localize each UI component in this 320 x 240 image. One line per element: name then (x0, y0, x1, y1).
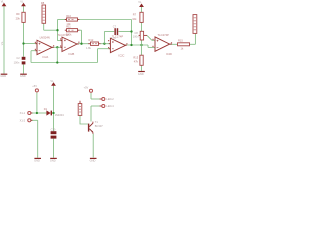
svg-text:GND: GND (50, 159, 56, 162)
wire R13 bottom to ground (141, 65, 143, 71)
svg-text:VL: VL (138, 0, 142, 4)
wire U1D output to R15 (170, 43, 178, 45)
wire R16 bottom to transistor base (80, 116, 88, 125)
svg-text:GND: GND (34, 159, 40, 162)
svg-text:1.8k: 1.8k (86, 46, 92, 50)
svg-text:+5V: +5V (84, 86, 89, 90)
wire VL to R9 top (23, 6, 25, 12)
wire R11 right (79, 29, 82, 31)
wire C7 branch vertical (103, 32, 105, 44)
svg-text:X1-2: X1-2 (20, 119, 26, 123)
wire LED pad bottom left (91, 105, 101, 107)
pin numbers U1C (108, 40, 109, 41)
wire X1-2 pad right (31, 119, 38, 121)
node U1A output junction (56, 46, 58, 48)
svg-text:R7: R7 (133, 12, 137, 16)
wire into U1D upper input (152, 39, 155, 41)
node U1B output junction (80, 43, 82, 45)
wire R10 left (58, 19, 67, 21)
node C8 bottom junction (140, 44, 142, 46)
wire to C7 left plate (104, 31, 114, 33)
svg-text:C10: C10 (51, 128, 56, 132)
wire VL left rail vertical (3, 6, 5, 74)
resistor R15 (178, 43, 190, 46)
wire down to transistor collector (90, 106, 92, 122)
svg-text:GND: GND (90, 159, 96, 162)
node B junction (56, 29, 58, 31)
pin numbers U1D (152, 39, 153, 40)
wire pad +5V down to diode node (36, 93, 38, 113)
transistor T1 (88, 124, 89, 132)
wire transistor emitter to ground (92, 134, 94, 158)
wire into U1D lower input (148, 46, 155, 48)
wire to LED pad top (91, 98, 101, 100)
capacitor C8 (140, 31, 143, 40)
svg-text:IC2C: IC2C (119, 53, 125, 57)
op-amp U1D (155, 37, 170, 51)
node feedback junction (56, 61, 58, 63)
svg-text:1N4004: 1N4004 (55, 113, 65, 117)
svg-text:TLC274P: TLC274P (112, 34, 124, 38)
node A junction (22, 42, 24, 44)
svg-text:R12: R12 (89, 38, 94, 42)
svg-text:R10: R10 (66, 14, 71, 18)
wire R11 down to U1B output node (81, 30, 83, 44)
node VL column junction (52, 112, 54, 114)
svg-text:GND: GND (138, 72, 144, 76)
wire U1A output to U1B lower input (52, 46, 62, 48)
svg-text:100n: 100n (133, 35, 139, 39)
resistor R10 (67, 18, 78, 21)
pin numbers U1A (35, 42, 36, 43)
supply VL arrow above diode node (51, 82, 56, 86)
resistor R9 (22, 12, 25, 22)
wire R12 to U1C input (100, 43, 110, 45)
wire C8 bottom to rail (141, 40, 143, 55)
pad LED minus (100, 105, 102, 107)
wire tall resistor R8 bottom down (43, 23, 45, 30)
svg-text:100n: 100n (14, 60, 20, 64)
wire U1B output to R12 (77, 43, 89, 45)
resistor R11 (67, 29, 78, 32)
wire C10 bottom to ground (53, 139, 55, 158)
ground under T1 (90, 158, 97, 159)
node U1C out junction (130, 44, 132, 46)
tall resistor R14 right edge (193, 15, 197, 34)
svg-text:IC2A: IC2A (43, 55, 49, 59)
wire VL column vertical upper (53, 86, 55, 132)
svg-text:TLC274P: TLC274P (158, 33, 170, 37)
svg-text:LED-2: LED-2 (106, 97, 114, 101)
wire up to tall resistor R14 (194, 33, 196, 44)
wire R10 right long rail (79, 19, 132, 21)
svg-text:BC337: BC337 (95, 124, 103, 128)
wire node B vertical to op-amp U1B input (57, 20, 59, 41)
svg-text:VL: VL (1, 0, 5, 3)
wire X1-1 pad to diode anode (31, 112, 46, 114)
ground under C2 (20, 74, 27, 75)
ground under R13 (138, 71, 145, 72)
op-amp pin stubs (52, 46, 54, 48)
svg-text:TLC274P: TLC274P (57, 33, 69, 37)
wire diode cathode to VL column (52, 112, 54, 114)
supply VL arrow second (21, 3, 26, 6)
svg-text:C7: C7 (113, 24, 117, 28)
wire feedback up to U1A minus input (30, 51, 32, 63)
node C7 branch junction (103, 43, 105, 45)
resistor R12 (91, 42, 99, 45)
wire rail down to U1D lower input (147, 45, 149, 47)
svg-text:R9: R9 (16, 12, 20, 16)
wire U1C plus input down to feedback rail (97, 49, 99, 63)
ground left (1, 74, 8, 75)
wire VL to R7 top (141, 7, 143, 12)
svg-text:C2: C2 (16, 56, 20, 60)
wire R9 bottom to node A (23, 22, 25, 56)
svg-text:GND: GND (20, 74, 26, 78)
capacitor C2 (22, 57, 26, 60)
wire R7 bottom to C8 top (141, 22, 143, 31)
svg-text:R15: R15 (178, 38, 183, 42)
svg-text:+5V: +5V (32, 84, 37, 88)
node D junction (130, 30, 132, 32)
wire U1C plus input (98, 48, 111, 50)
ground under C10 (50, 158, 57, 159)
resistor R16 (78, 104, 82, 116)
pad LED plus (100, 98, 102, 100)
svg-text:R11: R11 (66, 25, 71, 29)
wire C2 bottom to ground (23, 64, 25, 73)
resistor R7 (140, 12, 143, 22)
svg-text:LED-4: LED-4 (106, 104, 114, 108)
supply VL arrow top-left (2, 3, 7, 6)
svg-text:VL: VL (0, 41, 4, 45)
op-amp U1C (110, 38, 125, 52)
op-amp U1B (62, 37, 77, 51)
svg-text:VL: VL (20, 0, 24, 3)
svg-text:IC2B: IC2B (69, 52, 75, 56)
wire into U1A minus input (31, 50, 37, 52)
svg-text:X1-1: X1-1 (20, 111, 26, 115)
resistor R13 (140, 55, 143, 65)
wire into U1B top input (58, 40, 63, 42)
svg-text:GND: GND (0, 74, 6, 78)
ground under X1-2 (34, 158, 41, 159)
capacitor C7 (114, 28, 116, 35)
wire R8 to node B horizontal (44, 29, 58, 31)
wire C7 right plate to node D (118, 31, 131, 33)
svg-text:LM324N: LM324N (40, 35, 50, 39)
op-amp U1A (37, 40, 52, 54)
supply VL arrow over R7 (139, 4, 144, 8)
wire pad +5V right down (90, 93, 92, 99)
svg-text:D1: D1 (44, 107, 48, 111)
svg-text:C8: C8 (134, 31, 138, 35)
wire node A to op-amp U1A plus input (24, 43, 38, 45)
wire X1-2 down to ground (37, 120, 39, 157)
svg-text:47k: 47k (134, 60, 139, 64)
node diode junction (36, 112, 38, 114)
wire U1A output down (56, 47, 58, 62)
svg-text:R13: R13 (133, 55, 138, 59)
pin numbers U1B (60, 38, 61, 39)
svg-text:VL: VL (50, 79, 54, 83)
wire feedback bottom rail (31, 62, 98, 64)
svg-text:20k: 20k (16, 17, 21, 21)
svg-text:10k: 10k (132, 17, 137, 21)
wire node D vertical (131, 20, 133, 46)
svg-text:IC2D: IC2D (166, 52, 172, 56)
wire diagonal C8 stub to U1D upper input (147, 35, 152, 40)
wire U1C output rail to op-amp U1D (125, 44, 149, 46)
wire R15 right (190, 43, 196, 45)
